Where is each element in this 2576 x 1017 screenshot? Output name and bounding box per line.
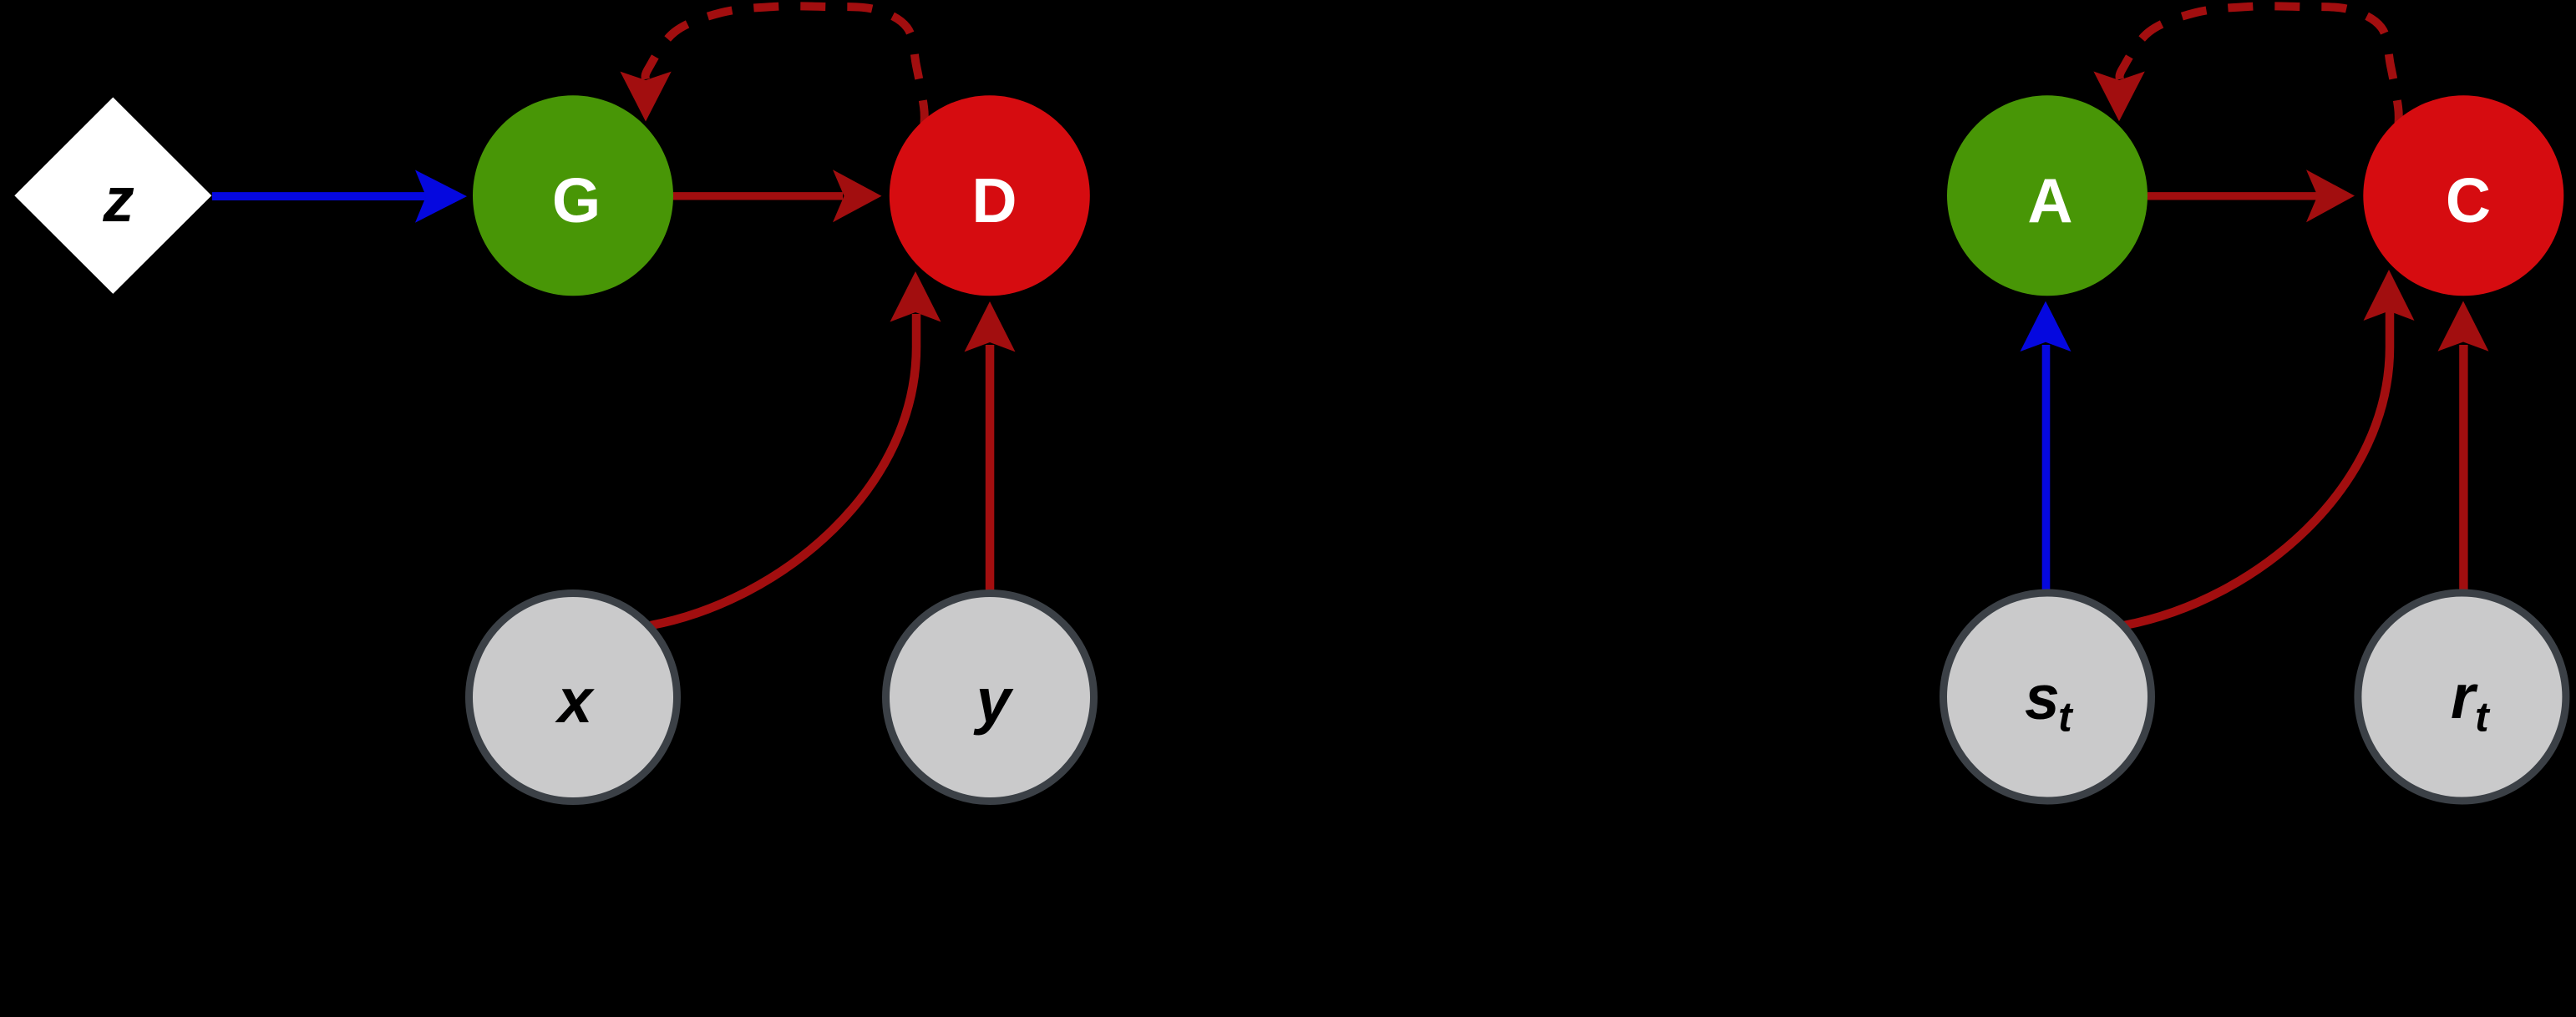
svg-text:s: s bbox=[2025, 662, 2060, 732]
svg-text:G: G bbox=[552, 165, 601, 235]
svg-text:y: y bbox=[973, 665, 1014, 736]
svg-text:t: t bbox=[2058, 694, 2074, 741]
svg-text:A: A bbox=[2027, 165, 2072, 235]
svg-text:z: z bbox=[102, 164, 134, 235]
svg-text:r: r bbox=[2451, 661, 2478, 731]
svg-text:D: D bbox=[971, 165, 1017, 235]
svg-text:C: C bbox=[2446, 165, 2491, 235]
svg-text:t: t bbox=[2475, 694, 2491, 741]
svg-text:x: x bbox=[555, 665, 596, 736]
